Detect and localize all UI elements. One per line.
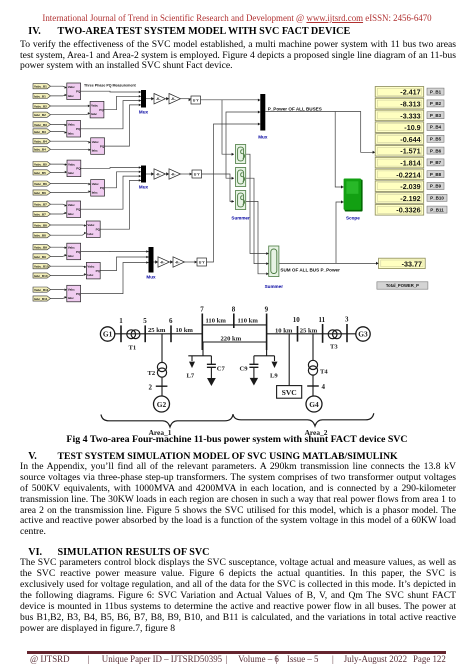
svg-text:Mux: Mux (146, 275, 156, 280)
svg-text:PQ: PQ (99, 108, 104, 112)
svg-text:P_B7: P_B7 (430, 160, 442, 165)
svg-text:-10.9: -10.9 (404, 123, 420, 132)
svg-text:Iabc: Iabc (87, 232, 93, 236)
svg-text:SVC: SVC (282, 388, 297, 397)
svg-text:-K-: -K- (156, 97, 161, 101)
svg-text:Iabc_B4: Iabc_B4 (34, 148, 46, 152)
svg-text:3: 3 (345, 315, 349, 323)
svg-text:C9: C9 (240, 366, 249, 373)
PQ measurement block B9 (67, 243, 81, 260)
label 110 km (206, 318, 227, 325)
from block Iabc_B9 (33, 254, 51, 259)
display Total power value -33.77 (379, 258, 426, 268)
svg-text:Iabc_B9: Iabc_B9 (34, 255, 46, 259)
svg-text:-1.814: -1.814 (400, 159, 420, 168)
summer block 1 (236, 145, 246, 164)
svg-text:L9: L9 (270, 373, 278, 380)
load L7 (187, 356, 196, 380)
from block Vabc_B1 (33, 84, 51, 89)
goto tag Total_POWER_P (377, 282, 428, 289)
selector block U Y (191, 96, 201, 104)
wire T2 to bus2 (161, 377, 163, 395)
goto tag P_B7 (427, 159, 444, 166)
label 10 km (275, 327, 293, 334)
from block Iabc_B8 (33, 233, 51, 238)
svg-text:Iabc: Iabc (68, 94, 74, 98)
wire (246, 112, 379, 274)
gain block -K- (169, 94, 181, 104)
svg-text:Vabc: Vabc (68, 245, 75, 249)
PQ measurement block B1 (67, 83, 81, 100)
bus 1 (120, 325, 122, 342)
display P bus 1 value -2.417 (375, 87, 424, 98)
wire T4 drop (312, 334, 314, 361)
svg-text:Vabc: Vabc (92, 140, 99, 144)
svg-text:1: 1 (119, 317, 123, 325)
display P bus 3 value -3.333 (375, 110, 424, 121)
svg-text:Vabc: Vabc (87, 223, 94, 227)
goto tag P_B4 (427, 124, 444, 131)
wire load stub left (188, 342, 211, 356)
svg-text:2: 2 (149, 383, 153, 391)
svg-text:Mux: Mux (139, 185, 149, 190)
svg-text:Vabc: Vabc (68, 203, 75, 207)
gain block -K- (158, 257, 170, 267)
svg-text:T4: T4 (320, 369, 328, 376)
svg-text:110 km: 110 km (238, 318, 259, 325)
bus 10 (297, 326, 299, 342)
label Area_1 (149, 428, 172, 437)
svg-text:Vabc_B1: Vabc_B1 (34, 85, 47, 89)
summer block 2 (236, 168, 246, 187)
from block Iabc_B7 (33, 211, 51, 216)
node label bus 2 (149, 383, 153, 391)
svg-text:PQ: PQ (100, 144, 105, 148)
generator G4 (306, 396, 322, 412)
svg-text:Vabc: Vabc (87, 265, 94, 269)
svg-text:Vabc: Vabc (68, 85, 75, 89)
display P bus 10 value -2.192 (375, 193, 424, 204)
svg-text:-K-: -K- (160, 261, 165, 265)
svg-text:C7: C7 (217, 366, 226, 373)
goto tag P_B9 (427, 183, 444, 190)
label Area_2 (305, 428, 328, 437)
display P bus 7 value -1.814 (375, 157, 424, 168)
from block Iabc_B2 (33, 112, 51, 117)
svg-text:T3: T3 (330, 344, 338, 351)
svg-text:Iabc: Iabc (92, 190, 98, 194)
from block Vabc_B8 (33, 222, 51, 227)
svg-text:Vabc_B10: Vabc_B10 (34, 265, 49, 269)
svg-text:-2.039: -2.039 (400, 182, 420, 191)
label 25 km (148, 327, 166, 334)
node label bus 1 (119, 317, 123, 325)
svg-text:Iabc_B5: Iabc_B5 (34, 171, 46, 175)
header journal line (0, 13, 474, 24)
svg-text:Vabc_B3: Vabc_B3 (34, 123, 47, 127)
generator G1 (100, 327, 114, 341)
svg-text:Iabc: Iabc (91, 112, 97, 116)
svg-text:Iabc_B3: Iabc_B3 (34, 130, 46, 134)
generator G3 (356, 327, 370, 341)
from block Iabc_B1 (33, 93, 51, 98)
label 25 km (300, 327, 318, 334)
goto tag P_B5 (427, 135, 444, 142)
section V paragraph (20, 462, 456, 538)
gain block -K- (154, 169, 166, 179)
bus 5 (144, 325, 146, 342)
footer (30, 654, 70, 665)
generator G2 (154, 396, 170, 412)
svg-text:Vabc_B2: Vabc_B2 (34, 104, 47, 108)
svg-text:T2: T2 (148, 370, 156, 377)
display P bus 11 value -0.3326 (375, 205, 424, 216)
from block Vabc_B9 (33, 245, 51, 250)
goto tag P_B8 (427, 171, 444, 178)
svg-text:-0.644: -0.644 (400, 135, 420, 144)
svg-text:Three Phase PQ Measurement: Three Phase PQ Measurement (84, 84, 137, 88)
mux Mux3 (146, 247, 156, 280)
from block Iabc_B3 (33, 129, 51, 134)
gain block -K- (173, 257, 185, 267)
svg-text:Vabc: Vabc (91, 104, 98, 108)
svg-text:Mux: Mux (139, 110, 149, 115)
svg-text:-0.2214: -0.2214 (396, 170, 420, 179)
goto tag P_B11 (427, 206, 447, 213)
label 220 km (221, 336, 242, 343)
svg-text:P_B11: P_B11 (430, 207, 444, 212)
svg-text:Iabc: Iabc (68, 212, 74, 216)
svg-text:Vabc_B5: Vabc_B5 (34, 163, 47, 167)
section IV heading (28, 26, 40, 37)
brace Area_2 (233, 413, 374, 426)
svg-text:P_B1: P_B1 (430, 89, 442, 94)
svg-text:G2: G2 (157, 400, 167, 409)
summer block 3 (236, 191, 246, 210)
svg-text:PQ: PQ (100, 186, 105, 190)
selector block U Y (192, 170, 202, 178)
svg-text:8: 8 (232, 306, 236, 314)
svg-text:Vabc_B9: Vabc_B9 (34, 246, 47, 250)
bus 8 (233, 314, 235, 329)
goto tag P_B2 (427, 100, 444, 107)
svg-text:-1.571: -1.571 (400, 147, 420, 156)
svg-text:10: 10 (293, 316, 301, 324)
svg-text:Iabc: Iabc (68, 296, 74, 300)
node label bus 9 (265, 306, 269, 314)
svg-text:Iabc_B11: Iabc_B11 (34, 297, 48, 301)
wire load stub right (254, 350, 275, 356)
from block Iabc_B4 (33, 147, 51, 152)
PQ measurement block B2 (90, 101, 104, 118)
goto tag P_B3 (427, 112, 444, 119)
bus 2 (156, 385, 168, 387)
transformer T4 (308, 360, 328, 375)
svg-text:L7: L7 (187, 373, 195, 380)
svg-text:Vabc_B4: Vabc_B4 (34, 140, 47, 144)
wire 110km double line (202, 324, 266, 326)
bus 4 (307, 385, 319, 387)
svg-text:PQ: PQ (76, 250, 81, 254)
svg-text:Mux: Mux (258, 135, 268, 140)
goto tag P_B1 (427, 88, 444, 95)
PQ measurement block B4 (91, 138, 105, 155)
from block Iabc_B5 (33, 170, 51, 175)
footer rule (27, 651, 446, 654)
mux Mux1 (139, 90, 149, 115)
from block Iabc_B11 (33, 296, 51, 301)
node label bus 11 (319, 316, 326, 324)
svg-text:25 km: 25 km (300, 327, 318, 334)
svg-text:Iabc_B2: Iabc_B2 (34, 113, 46, 117)
node label bus 6 (169, 317, 173, 325)
gain block -K- (169, 169, 181, 179)
PQ measurement block B7 (67, 201, 81, 218)
from block Vabc_B2 (33, 103, 51, 108)
goto tag P_B6 (427, 147, 444, 154)
wire T2 drop (161, 334, 163, 363)
label 10 km (176, 327, 194, 334)
svg-text:25 km: 25 km (148, 327, 166, 334)
svg-text:Iabc_B7: Iabc_B7 (34, 212, 46, 216)
svg-text:7: 7 (200, 306, 204, 314)
svg-text:PQ: PQ (76, 208, 81, 212)
transformer T1 (127, 330, 140, 352)
svg-text:9: 9 (265, 306, 269, 314)
svg-text:11: 11 (319, 316, 326, 324)
from block Vabc_B7 (33, 202, 51, 207)
svg-text:T1: T1 (129, 345, 137, 352)
PQ measurement block B10 (86, 262, 100, 279)
svg-text:4: 4 (322, 383, 326, 391)
wire main line left (115, 333, 203, 335)
PQ measurement block B11 (67, 285, 81, 302)
wire (146, 99, 260, 262)
mux Mux4 (258, 94, 268, 140)
svg-text:110 km: 110 km (206, 318, 227, 325)
svg-text:Iabc: Iabc (92, 149, 98, 153)
wire (81, 91, 149, 293)
svg-text:-3.333: -3.333 (400, 111, 420, 120)
PQ measurement block B8 (86, 221, 100, 238)
node label bus 7 (200, 306, 204, 314)
svg-text:-0.3326: -0.3326 (396, 206, 420, 215)
bus 3 (346, 324, 348, 342)
goto tag P_B10 (427, 194, 447, 201)
svg-text:P_B8: P_B8 (430, 172, 442, 177)
svg-text:Vabc: Vabc (68, 288, 75, 292)
node label bus 10 (293, 316, 301, 324)
svg-text:-K-: -K- (171, 173, 176, 177)
section IV paragraph (20, 40, 456, 73)
svg-text:PQ: PQ (96, 228, 101, 232)
svg-text:Vabc_B6: Vabc_B6 (34, 182, 47, 186)
svg-text:U Y: U Y (199, 261, 206, 265)
svg-text:PQ: PQ (76, 127, 81, 131)
svg-text:10 km: 10 km (176, 327, 194, 334)
svg-text:PQ: PQ (76, 292, 81, 296)
svg-text:Iabc_B1: Iabc_B1 (34, 94, 46, 98)
bus 11 (322, 324, 324, 343)
svg-text:P_B2: P_B2 (430, 101, 442, 106)
svg-text:U Y: U Y (194, 173, 201, 177)
svg-text:G1: G1 (103, 330, 113, 339)
svg-text:P_B6: P_B6 (430, 148, 442, 153)
svg-text:10 km: 10 km (275, 327, 293, 334)
svg-text:Iabc: Iabc (68, 131, 74, 135)
from block Iabc_B6 (33, 190, 51, 195)
section VI paragraph (20, 558, 456, 635)
section V heading (28, 451, 37, 462)
PQ measurement block B6 (91, 180, 105, 197)
svg-text:U Y: U Y (193, 99, 200, 103)
label 110 km (238, 318, 259, 325)
from block Vabc_B6 (33, 181, 51, 186)
svg-text:Iabc: Iabc (68, 254, 74, 258)
svg-text:G3: G3 (358, 330, 368, 339)
selector block U Y (197, 258, 207, 266)
bus 9 (266, 314, 268, 351)
svg-text:Iabc_B8: Iabc_B8 (34, 234, 46, 238)
from block Iabc_B10 (33, 273, 51, 278)
node label bus 3 (345, 315, 349, 323)
bus 6 (170, 325, 172, 342)
wire SVC drop (288, 334, 290, 386)
svg-text:-2.417: -2.417 (400, 88, 420, 97)
display P bus 4 value -10.9 (375, 122, 424, 133)
svg-text:P_B4: P_B4 (430, 125, 442, 130)
gain block -K- (154, 94, 166, 104)
display P bus 2 value -8.313 (375, 98, 424, 109)
svg-text:PQ: PQ (96, 269, 101, 273)
svg-text:P_B3: P_B3 (430, 113, 442, 118)
svg-text:P_B9: P_B9 (430, 184, 442, 189)
svg-text:Vabc: Vabc (92, 182, 99, 186)
svg-text:-K-: -K- (175, 261, 180, 265)
svg-text:-K-: -K- (171, 97, 176, 101)
svg-text:Vabc_B11: Vabc_B11 (34, 288, 49, 292)
svg-text:P_B10: P_B10 (430, 196, 444, 201)
svg-text:220 km: 220 km (221, 336, 242, 343)
svg-text:Vabc: Vabc (68, 162, 75, 166)
node label bus 8 (232, 306, 236, 314)
svg-text:PQ: PQ (76, 167, 81, 171)
transformer T2 (148, 362, 167, 377)
svg-text:6: 6 (169, 317, 173, 325)
from block Vabc_B10 (33, 264, 51, 269)
wire (65, 86, 91, 298)
from block Vabc_B5 (33, 162, 51, 167)
wire main line right (267, 333, 356, 335)
svg-text:Scope: Scope (346, 216, 360, 221)
svg-text:Vabc_B7: Vabc_B7 (34, 203, 47, 207)
svg-text:SUM OF ALL BUS P_Power: SUM OF ALL BUS P_Power (280, 267, 340, 272)
node label bus 5 (143, 317, 147, 325)
from block Vabc_B4 (33, 139, 51, 144)
scope block (344, 179, 363, 212)
svg-text:-K-: -K- (156, 173, 161, 177)
wire T4 to bus4 (312, 375, 314, 395)
wire (51, 86, 90, 298)
node label bus 4 (322, 383, 326, 391)
wire 220km line (202, 341, 266, 343)
svg-text:-33.77: -33.77 (402, 260, 422, 269)
svg-text:Iabc: Iabc (68, 171, 74, 175)
PQ measurement block B5 (67, 160, 81, 177)
svg-text:Vabc_B8: Vabc_B8 (34, 223, 47, 227)
svg-text:Iabc_B10: Iabc_B10 (34, 274, 48, 278)
section VI heading (28, 547, 42, 558)
transformer T3 (328, 330, 341, 351)
capacitor C9 (240, 356, 259, 386)
svg-text:P_Power OF ALL BUSES: P_Power OF ALL BUSES (268, 106, 322, 111)
display P bus 8 value -0.2214 (375, 169, 424, 180)
display P bus 9 value -2.039 (375, 181, 424, 192)
bus 7 (201, 314, 203, 351)
svg-text:Total_POWER_P: Total_POWER_P (386, 283, 419, 288)
svg-text:Summer: Summer (231, 216, 250, 221)
load L9 (270, 356, 278, 380)
figure 4 caption (0, 434, 474, 445)
svg-text:Iabc: Iabc (87, 273, 93, 277)
svg-text:PQ: PQ (76, 90, 81, 94)
mux Mux2 (139, 166, 149, 190)
svg-text:-2.192: -2.192 (400, 194, 420, 203)
from block Vabc_B3 (33, 122, 51, 127)
svg-text:Summer: Summer (265, 284, 284, 289)
capacitor C7 (207, 356, 226, 386)
brace Area_1 (101, 414, 233, 427)
svg-text:Vabc: Vabc (68, 123, 75, 127)
svg-text:-8.313: -8.313 (400, 100, 420, 109)
svg-text:P_B5: P_B5 (430, 137, 442, 142)
SVC block (277, 386, 302, 399)
summer block tall (269, 246, 279, 277)
from block Vabc_B11 (33, 287, 51, 292)
svg-text:Iabc_B6: Iabc_B6 (34, 191, 46, 195)
PQ measurement block B3 (67, 121, 81, 138)
svg-text:5: 5 (143, 317, 147, 325)
display P bus 6 value -1.571 (375, 146, 424, 157)
svg-text:G4: G4 (309, 400, 319, 409)
display P bus 5 value -0.644 (375, 134, 424, 145)
